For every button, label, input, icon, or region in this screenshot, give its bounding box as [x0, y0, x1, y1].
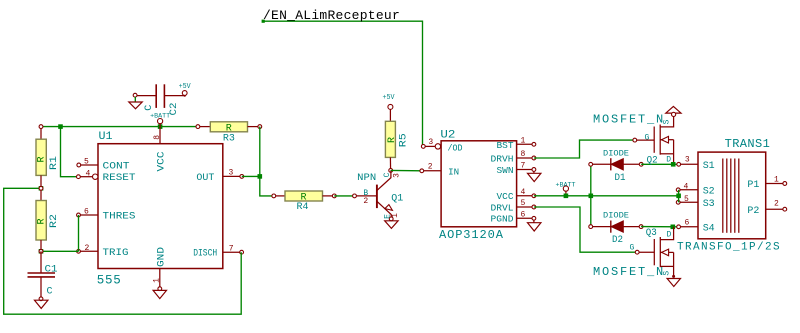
transistor Q3 MOSFET_N — [630, 227, 676, 278]
wire from label /EN_ALimRecepteur to U2 pin 3 — [262, 20, 423, 147]
svg-text:IN: IN — [448, 167, 459, 177]
TRANS1 pin 3 S1 — [677, 156, 715, 172]
label Q3 — [646, 228, 657, 239]
label DIODE (D1) — [603, 150, 629, 159]
label MOSFET_N (top) — [593, 112, 665, 126]
power symbol +5V at C2 — [179, 83, 192, 96]
svg-text:1: 1 — [774, 176, 779, 185]
svg-text:NPN: NPN — [357, 173, 376, 184]
TRANS1 pin 1 P1 — [747, 176, 786, 191]
label AOP3120A — [439, 228, 504, 242]
svg-text:P2: P2 — [747, 206, 759, 217]
IC U2 AOP3120A gate driver body — [441, 141, 516, 227]
TRANS1 pin 2 P2 — [747, 200, 786, 217]
svg-text:P1: P1 — [747, 180, 759, 191]
transistor Q2 MOSFET_N — [633, 116, 674, 164]
ground at Q1 emitter — [385, 221, 398, 229]
wire Q1 collector to U2 IN — [391, 169, 422, 171]
svg-text:RESET: RESET — [103, 173, 136, 184]
TRANS1 pin 4 S2 — [676, 183, 714, 198]
capacitor C1 — [28, 251, 56, 300]
svg-text:S1: S1 — [703, 161, 715, 172]
U1 pin 7 DISCH — [193, 244, 243, 259]
ground symbol at C2 — [129, 102, 142, 109]
wire D1 cathode to D2 cathode vertical — [590, 164, 592, 226]
svg-text:/EN_ALimRecepteur: /EN_ALimRecepteur — [263, 8, 400, 23]
transformer TRANS1 body — [698, 152, 766, 239]
label U2 — [440, 130, 455, 142]
wire U2 VCC +BATT rail to transformer — [534, 195, 679, 197]
svg-text:D2: D2 — [612, 235, 623, 246]
junction top rail / U1 VCC / +BATT — [158, 124, 163, 129]
junction Q2 drain / D1 / S1 — [671, 162, 676, 167]
net label /EN_ALimRecepteur — [263, 8, 400, 23]
svg-text:CONT: CONT — [103, 161, 130, 172]
U2 pin 1 BST — [497, 137, 536, 151]
svg-text:3: 3 — [685, 156, 690, 165]
wire U2 DRVL to Q3 gate — [534, 207, 637, 252]
svg-text:C: C — [47, 287, 53, 298]
junction Q3 drain / D2 / S4 — [671, 225, 676, 230]
svg-text:U1: U1 — [99, 131, 113, 143]
resistor R3 — [196, 122, 262, 135]
svg-text:C1: C1 — [45, 265, 58, 276]
power symbol +BATT (right) — [556, 181, 576, 196]
svg-text:DRVL: DRVL — [491, 203, 514, 213]
svg-text:/OD: /OD — [448, 143, 463, 153]
svg-text:1: 1 — [391, 213, 400, 218]
svg-text:G: G — [645, 133, 650, 142]
junction +BATT on VCC rail — [564, 194, 569, 199]
svg-text:5: 5 — [521, 199, 526, 208]
label DIODE (D2) — [603, 211, 629, 220]
ground at U2 PGND — [528, 223, 541, 231]
resistor R2 — [36, 188, 48, 253]
label U1 — [99, 131, 113, 143]
TRANS1 pin 5 S3 — [676, 195, 714, 210]
svg-text:+5V: +5V — [179, 83, 192, 91]
label NPN — [357, 173, 376, 184]
wire S2 to S3 tee — [678, 190, 680, 203]
svg-text:4: 4 — [86, 169, 91, 178]
label R2 (rotated) — [49, 214, 60, 228]
U2 pin 6 PGND — [491, 211, 536, 225]
junction R1/R2 node — [39, 186, 44, 191]
wire R4 to Q1 base — [334, 195, 354, 197]
svg-text:6: 6 — [685, 219, 690, 228]
svg-text:GND: GND — [157, 247, 168, 267]
label TRANSFO_1P/2S — [677, 241, 781, 253]
svg-text:+5V: +5V — [383, 94, 396, 102]
IC U1 555 timer body — [98, 144, 223, 269]
svg-text:DIODE: DIODE — [603, 211, 629, 220]
ground at U2 SWN — [528, 173, 541, 181]
svg-text:DISCH: DISCH — [193, 249, 217, 260]
junction R2/C1/TRIG node — [39, 249, 44, 254]
wire from top rail to U1 RESET pin 4 — [61, 127, 79, 177]
ground under C2 left — [134, 97, 136, 102]
svg-text:TRIG: TRIG — [103, 248, 129, 259]
svg-text:R2: R2 — [49, 214, 60, 228]
U2 pin 7 SWN — [497, 162, 536, 176]
label C2 value C (rotated) — [144, 105, 155, 111]
svg-text:D1: D1 — [615, 173, 626, 184]
svg-text:8: 8 — [521, 150, 526, 159]
resistor R4 — [272, 191, 336, 204]
svg-text:Q1: Q1 — [391, 193, 403, 204]
svg-text:4: 4 — [521, 188, 526, 197]
label MOSFET_N (bottom) — [593, 265, 665, 279]
svg-text:BST: BST — [497, 141, 515, 151]
svg-text:R: R — [37, 218, 48, 224]
U2 pin 8 DRVH — [491, 150, 536, 164]
svg-text:Q2: Q2 — [647, 156, 658, 167]
svg-text:AOP3120A: AOP3120A — [439, 228, 504, 242]
label Q2 — [647, 156, 658, 167]
svg-text:7: 7 — [229, 244, 234, 253]
svg-text:SWN: SWN — [497, 166, 514, 176]
svg-text:5: 5 — [84, 158, 89, 167]
svg-text:THRES: THRES — [103, 212, 136, 223]
label TRANS1 — [725, 137, 771, 151]
U1 pin 6 THRES — [77, 207, 136, 222]
svg-text:R3: R3 — [223, 133, 235, 144]
svg-text:2: 2 — [774, 200, 779, 209]
svg-text:DRVH: DRVH — [491, 154, 514, 164]
svg-text:2: 2 — [85, 244, 90, 253]
diode D1 — [589, 158, 643, 170]
U2 pin 5 DRVL — [491, 199, 536, 213]
svg-text:6: 6 — [521, 211, 526, 220]
svg-text:S4: S4 — [703, 223, 715, 234]
label R4 — [297, 202, 309, 213]
svg-text:S2: S2 — [703, 186, 715, 197]
svg-text:MOSFET_N: MOSFET_N — [593, 265, 665, 279]
U1 pin 1 GND (bottom) — [153, 247, 168, 291]
junction D1/D2 link on VCC rail — [589, 194, 594, 199]
junction top rail / RESET drop — [58, 124, 63, 129]
svg-text:R: R — [37, 156, 48, 162]
U2 pin 7 ground stem — [533, 171, 535, 173]
svg-text:MOSFET_N: MOSFET_N — [593, 112, 665, 126]
svg-text:G: G — [630, 243, 635, 252]
resistor R1 — [36, 125, 48, 191]
wire R2 bottom to U1 TRIG — [41, 250, 79, 252]
wire D1 anode to transformer S1 — [641, 163, 679, 165]
U2 pin 2 IN — [420, 163, 459, 178]
svg-text:Q3: Q3 — [646, 228, 657, 239]
label Q1 — [391, 193, 403, 204]
wire U1 OUT to node — [242, 175, 260, 177]
resistor R5 — [385, 109, 397, 172]
svg-text:R5: R5 — [399, 133, 410, 147]
junction OUT / R3-R4 wire — [258, 174, 263, 179]
ground at U1 GND pin — [153, 290, 166, 298]
wire top +BATT rail from R1 to R3 — [41, 126, 198, 128]
label C1 — [45, 265, 58, 276]
svg-text:S3: S3 — [703, 199, 715, 210]
svg-text:7: 7 — [521, 162, 526, 171]
wire U2 DRVH to Q2 gate — [534, 140, 635, 158]
svg-text:R1: R1 — [49, 156, 60, 170]
U2 pin 3 /OD (inverted) — [421, 138, 462, 154]
svg-text:1: 1 — [153, 278, 162, 283]
svg-text:VCC: VCC — [157, 152, 168, 172]
U1 pin 8 VCC (top) — [153, 127, 168, 172]
U1 pin 5 CONT — [77, 158, 130, 173]
svg-text:R: R — [387, 137, 398, 143]
power symbol +BATT (left) — [150, 113, 170, 127]
svg-text:3: 3 — [229, 169, 234, 178]
power symbol +5V at R5 — [383, 94, 396, 110]
label C1 value C — [47, 287, 53, 298]
svg-text:3: 3 — [428, 138, 433, 147]
ground at Q3 source — [667, 279, 680, 287]
svg-text:TRANS1: TRANS1 — [725, 137, 771, 151]
capacitor C2 — [133, 84, 186, 108]
wire left loop from R1/R2 node to U1 DISCH — [4, 188, 242, 314]
label D1 — [615, 173, 626, 184]
svg-text:5: 5 — [684, 195, 689, 204]
svg-text:4: 4 — [684, 183, 689, 192]
svg-text:R4: R4 — [297, 202, 309, 213]
svg-text:8: 8 — [153, 135, 162, 140]
svg-text:OUT: OUT — [196, 173, 214, 184]
svg-text:C2: C2 — [169, 103, 180, 116]
label C2 reference (rotated) — [169, 103, 180, 116]
U1 pin 3 OUT — [196, 169, 243, 184]
power arrow above Q2 — [666, 106, 681, 116]
svg-text:C: C — [383, 172, 392, 177]
wire U1 THRES to TRIG — [78, 215, 80, 251]
svg-text:PGND: PGND — [491, 215, 514, 225]
svg-text:6: 6 — [84, 207, 89, 216]
svg-text:TRANSFO_1P/2S: TRANSFO_1P/2S — [677, 241, 781, 253]
label R3 — [223, 133, 235, 144]
svg-text:D: D — [666, 156, 671, 165]
svg-text:DIODE: DIODE — [603, 150, 629, 159]
svg-text:3: 3 — [392, 173, 401, 178]
svg-text:U2: U2 — [440, 130, 455, 142]
diode D2 — [589, 221, 643, 233]
transistor Q1 NPN — [353, 170, 402, 220]
junction VCC rail / S2-S3 tee — [676, 194, 681, 199]
U2 pin 6 ground stem — [533, 220, 535, 223]
svg-text:1: 1 — [521, 137, 526, 146]
U2 pin 4 VCC — [497, 188, 536, 202]
svg-text:D: D — [667, 231, 672, 240]
svg-text:C: C — [144, 105, 155, 111]
svg-text:555: 555 — [97, 274, 122, 288]
svg-text:2: 2 — [428, 163, 433, 172]
svg-text:2: 2 — [363, 197, 368, 206]
label R1 (rotated) — [49, 156, 60, 170]
svg-text:VCC: VCC — [497, 192, 515, 202]
wire D2 anode to transformer S4 — [641, 226, 679, 228]
U1 pin 4 RESET (inverted) — [77, 169, 136, 184]
U1 pin 2 TRIG — [77, 244, 129, 259]
ground at C1 — [35, 300, 48, 308]
TRANS1 pin 6 S4 — [677, 219, 715, 235]
label R5 (rotated) — [399, 133, 410, 147]
wire R3 right down to R4 — [260, 127, 274, 196]
label D2 — [612, 235, 623, 246]
label 555 — [97, 274, 122, 288]
